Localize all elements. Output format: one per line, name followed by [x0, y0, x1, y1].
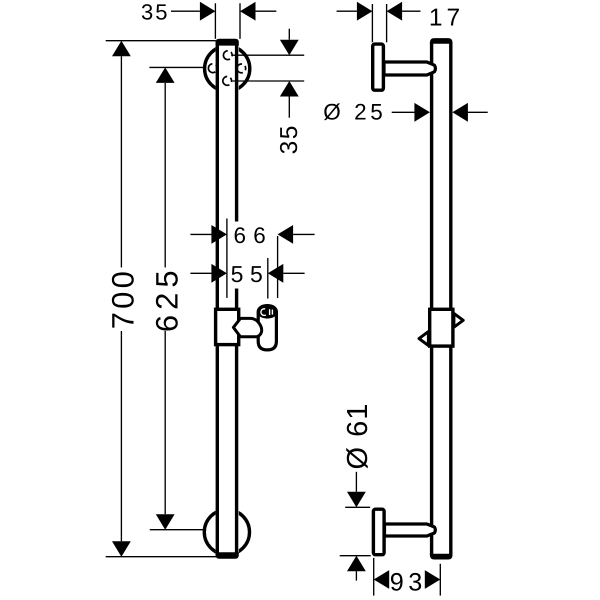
dim 93: dimension line and arrows: [374, 570, 390, 589]
svg-text:625: 625: [149, 265, 184, 332]
svg-text:55: 55: [231, 261, 270, 287]
svg-text:700: 700: [106, 268, 141, 329]
dim 55: extension line: [267, 258, 269, 299]
flange screw top: [222, 49, 234, 61]
front view: rail tube body: [216, 39, 239, 559]
side view: bottom mounting arm: [385, 524, 436, 536]
dim 17: dimension line and arrows: [337, 10, 357, 12]
front view: rail bottom end cap: [216, 552, 239, 558]
side view: bottom wall plate: [373, 509, 384, 555]
dim 55: dimension line and arrows: [190, 272, 211, 274]
svg-text:Ø 25: Ø 25: [323, 99, 386, 124]
svg-text:35: 35: [276, 124, 303, 154]
side view: top wall plate: [373, 44, 384, 90]
flange screw bottom: [221, 75, 233, 87]
svg-text:35: 35: [141, 0, 169, 24]
front view: slider bracket: [216, 309, 239, 344]
dim Ø61: extension lines: [345, 506, 370, 508]
front view: handset holder cup body: [258, 312, 276, 350]
dim Ø61: dimension line and arrows: [355, 472, 357, 492]
front view: rail top end cap: [216, 39, 239, 46]
front view: holder cup opening (dark ellipse): [257, 304, 278, 319]
svg-text:93: 93: [390, 568, 427, 596]
side view: top mounting arm: [384, 62, 435, 75]
flange screw left: [207, 62, 219, 74]
dim 66: extension lines: [226, 219, 228, 298]
flange screw right: [236, 63, 247, 74]
dim 93: extension lines: [373, 558, 375, 596]
svg-text:Ø 61: Ø 61: [342, 403, 374, 470]
side view: rail bottom end cap: [430, 554, 453, 560]
dim 625: dimension line and arrows: [156, 67, 175, 83]
front view: top wall flange disc: [205, 46, 250, 91]
dim 17: extension lines: [371, 4, 373, 42]
label background knockout on rail edge: [233, 222, 242, 289]
side view: rail top end cap: [430, 38, 453, 44]
svg-text:17: 17: [429, 5, 464, 32]
dim 700: dimension line and arrows: [112, 41, 131, 57]
dim 35 top-left: dimension line and arrows: [171, 10, 200, 12]
side view: slider bracket: [430, 309, 453, 346]
holder cup opening slot marks: [269, 309, 271, 315]
svg-text:66: 66: [234, 223, 273, 248]
dim 625: extension lines: [149, 66, 203, 68]
dim 35 top-left: extension lines: [214, 3, 216, 39]
dim 66: dimension line and arrows: [190, 233, 211, 235]
front view: release lever: [233, 318, 261, 336]
dim 35 right of flange: dimension line and arrows: [288, 29, 290, 40]
side view: slider lever tab (right): [454, 313, 463, 327]
front view: bottom wall flange disc: [204, 509, 249, 554]
side view: rail tube body: [430, 38, 453, 559]
dim 700: extension lines: [106, 40, 216, 42]
dim Ø25: dimension line and arrows: [392, 111, 415, 113]
dim 35 right of flange: extension lines from screw centres: [232, 54, 304, 56]
side view: holder stub (left): [419, 332, 428, 346]
holder cup opening highlight arc: [260, 308, 269, 317]
